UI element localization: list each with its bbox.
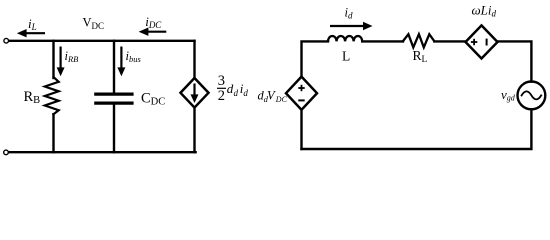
svg-text:iL: iL — [28, 16, 37, 32]
current arrow ibus (points down) — [117, 47, 125, 77]
wire: left-circuit bottom bus — [9, 151, 195, 153]
minus sign inside ddVDC diamond — [298, 99, 304, 101]
wire: left-circuit top bus — [10, 40, 195, 42]
terminal: top-left open circle — [4, 38, 9, 43]
svg-text:DC: DC — [275, 95, 288, 104]
svg-text:2: 2 — [218, 88, 225, 104]
capacitor CDC top plate — [96, 92, 132, 95]
dependent voltage source diamond ddVDC — [286, 77, 317, 110]
wire: bottom-left corner up to ddVDC diamond — [300, 110, 302, 149]
svg-text:ibus: ibus — [126, 49, 142, 64]
svg-text:iRB: iRB — [65, 49, 79, 64]
wire: RB branch top segment — [52, 41, 54, 78]
inductor L (4 humps) — [328, 36, 362, 41]
current arrow iRB (points down) — [57, 47, 65, 77]
plus sign inside wLid diamond — [471, 39, 477, 45]
wire: vgd to bottom-right corner — [302, 109, 532, 149]
svg-text:CDC: CDC — [141, 90, 165, 107]
svg-text:RB: RB — [24, 89, 41, 106]
terminal: bottom-left open circle — [4, 150, 9, 155]
resistor RB zigzag — [45, 77, 59, 114]
label ddVDC — [258, 89, 288, 104]
dependent voltage source diamond wLid — [466, 25, 498, 58]
current arrow iDC (points left) — [139, 28, 167, 36]
label dd id (value of current source) — [227, 81, 249, 98]
dependent current source diamond (3/2 dd id) — [181, 78, 209, 108]
wire: inductor to RL — [362, 40, 403, 42]
arrow inside current source (points down) — [191, 84, 199, 104]
wire: left-circuit right branch bottom — [193, 108, 195, 153]
capacitor CDC bottom plate — [96, 101, 132, 104]
svg-text:d: d — [243, 88, 248, 98]
current arrow iL (points left) — [17, 29, 45, 37]
svg-text:L: L — [342, 49, 350, 64]
wire: right-circuit top-left corner to inductor — [302, 41, 329, 76]
sine wave inside vgd — [522, 91, 542, 99]
wire: left-circuit right branch top — [193, 41, 195, 78]
wire: RB branch bottom segment — [52, 114, 54, 152]
svg-text:RL: RL — [413, 48, 428, 65]
wire: RL to wLid diamond — [434, 40, 465, 42]
svg-text:vgd: vgd — [501, 87, 516, 103]
wire: wLid diamond to top-right corner — [498, 41, 532, 81]
ac source vgd circle — [518, 82, 546, 110]
wire: CDC branch top segment — [113, 41, 115, 93]
svg-text:id: id — [345, 6, 353, 21]
current arrow id (points right) — [330, 22, 373, 30]
svg-text:ωLid: ωLid — [472, 3, 497, 19]
wire: CDC branch bottom segment — [113, 105, 115, 153]
resistor RL zigzag — [403, 34, 434, 47]
plus sign inside ddVDC diamond — [298, 85, 304, 91]
svg-text:d: d — [234, 88, 239, 98]
svg-text:iDC: iDC — [145, 14, 162, 30]
label 3/2 fraction — [217, 73, 226, 104]
svg-text:V: V — [267, 89, 276, 103]
svg-text:3: 3 — [218, 73, 225, 89]
svg-text:VDC: VDC — [83, 16, 105, 31]
minus bar inside wLid diamond — [486, 39, 488, 46]
